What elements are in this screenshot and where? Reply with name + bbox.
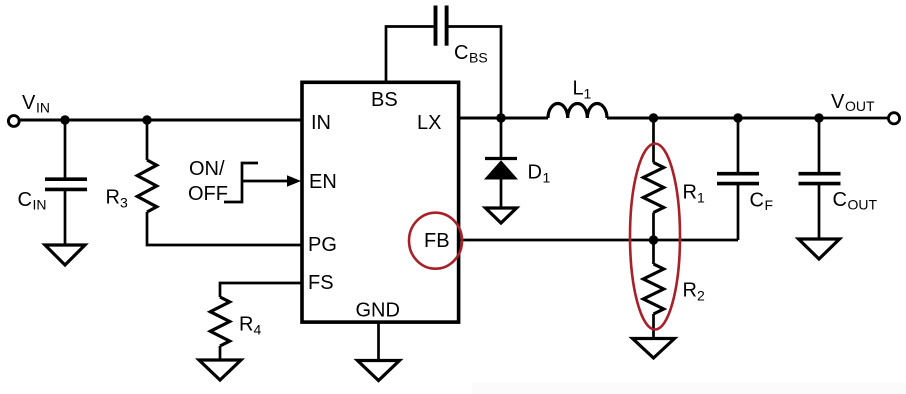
svg-text:F: F: [765, 197, 774, 213]
label ON/OFF: [188, 158, 228, 205]
wire CF bottom to FB rail: [737, 185, 740, 240]
wire BS pin up and to CBS: [386, 27, 434, 84]
svg-text:R: R: [106, 187, 120, 209]
resistor R4: [210, 297, 229, 346]
label VIN: [22, 92, 50, 116]
wire COUT top: [818, 118, 821, 172]
label VOUT: [831, 91, 875, 114]
wire CF top: [737, 118, 740, 172]
terminal VIN: [8, 116, 19, 127]
label CF: [750, 190, 774, 213]
svg-text:FB: FB: [424, 230, 450, 252]
svg-text:L: L: [573, 78, 584, 100]
wire R3 top: [146, 120, 149, 160]
wire L1 to output node: [607, 117, 738, 120]
ground GND pin: [358, 361, 400, 381]
svg-text:2: 2: [697, 288, 705, 304]
wire CIN bottom: [64, 191, 67, 245]
svg-text:R: R: [239, 313, 253, 335]
svg-text:C: C: [833, 189, 847, 211]
wire R3 bottom to PG pin: [147, 212, 302, 245]
svg-text:C: C: [750, 190, 764, 212]
label R2: [683, 280, 706, 304]
label CBS: [454, 42, 488, 66]
capacitor CBS: [436, 6, 447, 46]
label L1: [573, 78, 592, 102]
label R4: [239, 313, 262, 337]
svg-text:GND: GND: [356, 299, 400, 321]
svg-text:1: 1: [543, 170, 551, 186]
label COUT: [833, 189, 878, 213]
terminal VOUT: [888, 113, 899, 124]
node junction CF: [733, 113, 742, 122]
diode D1: [484, 159, 518, 180]
wire CBS to LX node: [449, 27, 502, 119]
svg-text:D: D: [528, 162, 542, 184]
wire CIN top: [64, 120, 67, 178]
node junction R1: [649, 113, 658, 122]
svg-text:IN: IN: [36, 100, 50, 116]
arrow into EN: [242, 175, 301, 187]
red circle highlight around FB: [409, 213, 462, 269]
node junction FB divider: [649, 235, 658, 244]
wire D1 top: [500, 118, 503, 159]
svg-text:EN: EN: [309, 171, 337, 193]
svg-text:LX: LX: [417, 112, 441, 134]
svg-text:BS: BS: [469, 50, 488, 66]
wire VIN rail to IN pin: [19, 119, 303, 122]
svg-text:OUT: OUT: [848, 197, 878, 213]
wire FS pin to R4: [220, 283, 302, 297]
svg-text:OUT: OUT: [845, 98, 875, 114]
node junction COUT: [814, 113, 823, 122]
svg-text:4: 4: [254, 321, 262, 337]
svg-text:V: V: [831, 91, 845, 113]
ground COUT: [799, 239, 840, 259]
resistor R3: [137, 160, 156, 212]
wire R1 bottom: [652, 213, 655, 241]
wire R2 bottom: [652, 314, 655, 339]
capacitor COUT: [799, 174, 841, 184]
svg-text:ON/: ON/: [189, 158, 225, 180]
ground R2: [633, 339, 675, 359]
wire COUT bottom: [818, 185, 821, 239]
wire R4 bottom: [219, 346, 222, 360]
ground R4: [199, 360, 241, 380]
wire GND pin: [377, 321, 380, 361]
wire rail to VOUT terminal: [819, 117, 889, 120]
svg-text:V: V: [22, 92, 36, 114]
ground CIN: [45, 245, 85, 265]
node junction R3: [142, 115, 151, 124]
svg-text:FS: FS: [308, 272, 334, 294]
wire LX pin to inductor: [457, 117, 548, 120]
svg-text:R: R: [683, 280, 697, 302]
label R3: [106, 187, 129, 211]
IC U1 regulator body: [302, 82, 459, 322]
node junction CIN: [60, 115, 69, 124]
wire rail to COUT: [738, 117, 819, 120]
ground D1: [486, 208, 517, 223]
resistor R2: [643, 264, 663, 314]
capacitor CF: [717, 174, 759, 184]
label R1: [683, 182, 706, 206]
faint scan band bottom right: [472, 383, 906, 394]
svg-text:IN: IN: [33, 197, 47, 213]
inductor L1: [548, 103, 607, 118]
wire R1 top: [652, 118, 655, 163]
svg-text:PG: PG: [308, 234, 337, 256]
svg-text:C: C: [18, 189, 32, 211]
node junction LX/D1: [496, 113, 505, 122]
red ellipse highlight around R1 R2: [630, 144, 680, 330]
wire D1 bottom: [500, 180, 503, 209]
wire FB pin rail: [457, 239, 738, 242]
svg-text:1: 1: [584, 86, 592, 102]
label D1: [528, 162, 551, 186]
svg-text:BS: BS: [371, 89, 398, 111]
svg-text:C: C: [454, 42, 468, 64]
capacitor CIN: [45, 179, 87, 189]
svg-text:1: 1: [697, 190, 705, 206]
wire R2 top: [652, 240, 655, 264]
rising edge symbol: [224, 163, 258, 202]
resistor R1: [643, 163, 663, 213]
svg-text:IN: IN: [311, 112, 331, 134]
svg-text:R: R: [683, 182, 697, 204]
svg-text:OFF: OFF: [188, 183, 228, 205]
label CIN: [18, 189, 47, 213]
svg-text:3: 3: [120, 195, 128, 211]
